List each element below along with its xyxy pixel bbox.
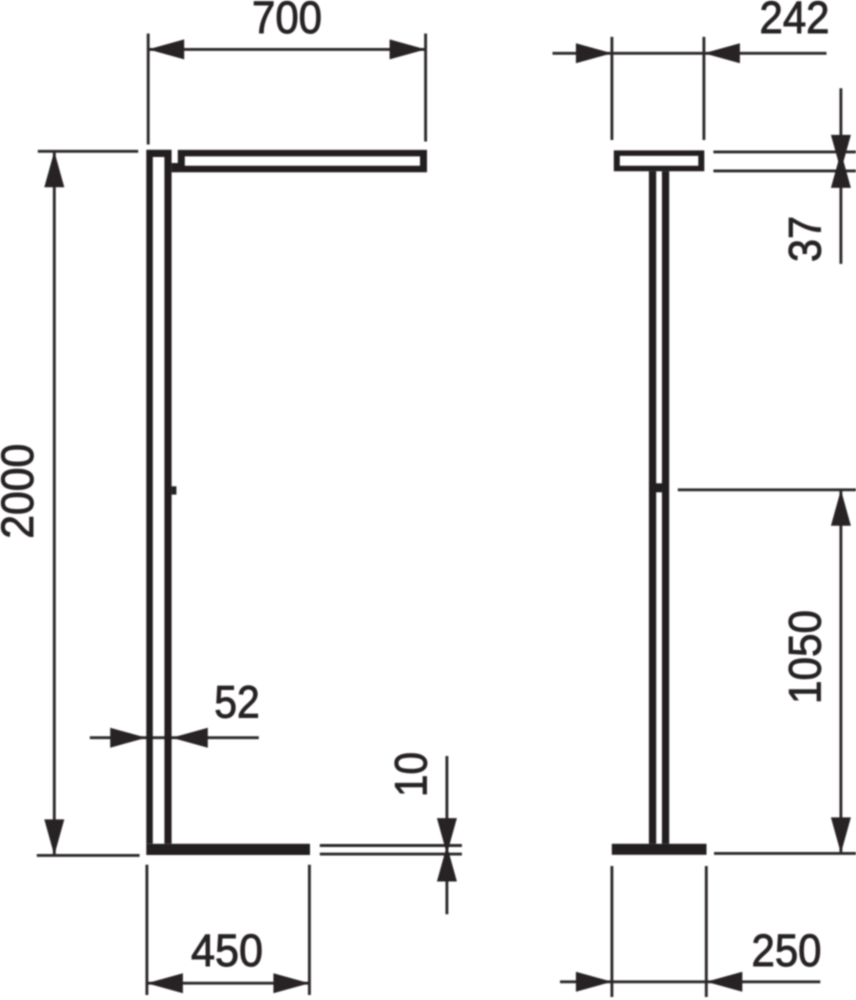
wire 1050 top extension (678, 488, 856, 491)
arrow 1050 bottom (831, 817, 851, 853)
arrow 37 bottom (831, 135, 851, 171)
wire 10 top extension (320, 844, 462, 847)
pole front view outline (146, 150, 171, 844)
arrow 242 left (576, 43, 612, 63)
pole side view right line (662, 171, 669, 844)
arrow 700 left (148, 39, 184, 59)
arrow 450 right (273, 973, 309, 993)
wire 450 right extension (308, 865, 311, 995)
arrow 450 left (147, 973, 183, 993)
wire 250 right extension (705, 866, 708, 997)
wire 1050 dim line (839, 490, 842, 854)
arrow 10 bottom (437, 818, 457, 854)
lamp head side view (614, 150, 705, 171)
wire 242 dim line (553, 52, 827, 55)
arrow 1050 top (831, 490, 851, 526)
wire 2000 dim line (53, 151, 56, 855)
arrow 52 right (172, 728, 208, 748)
svg-text:37: 37 (780, 216, 831, 262)
wire 450 left extension (145, 865, 148, 995)
wire 52 dim line (90, 736, 259, 739)
svg-text:10: 10 (386, 752, 437, 797)
switch mark side view (655, 483, 663, 492)
wire 250 left extension (610, 866, 613, 997)
wire 700 dim line (148, 48, 425, 51)
head-pole connector front view (172, 163, 178, 172)
base side view (612, 844, 707, 855)
svg-text:242: 242 (760, 0, 830, 43)
svg-text:2000: 2000 (0, 444, 43, 539)
wire 10 bottom extension (320, 853, 462, 856)
wire 450 dim line (147, 982, 310, 985)
wire 242 left extension (610, 37, 613, 140)
wire 700 left extension (147, 34, 150, 145)
wire 2000 top extension (38, 150, 138, 153)
wire 2000 bottom extension (37, 854, 140, 857)
svg-text:700: 700 (252, 0, 322, 43)
arrow 2000 top (44, 151, 64, 187)
arrow 52 left (110, 728, 146, 748)
svg-text:250: 250 (752, 925, 822, 976)
wire 1050 bottom extension (714, 852, 856, 855)
wire 250 dim line (560, 980, 820, 983)
wire 700 right extension (424, 34, 427, 142)
switch nub front view (172, 486, 177, 494)
wire 37 bottom extension (713, 169, 856, 172)
arrow 242 right (704, 43, 740, 63)
arrow 250 right (706, 972, 742, 992)
svg-text:1050: 1050 (780, 610, 831, 704)
wire 37 top extension (713, 150, 856, 153)
arrow 700 right (390, 39, 426, 59)
arrow 2000 bottom (44, 819, 64, 855)
wire 242 right extension (702, 37, 705, 140)
lamp head front view (178, 150, 427, 172)
pole side view left line (649, 171, 656, 844)
arrow 37 top (831, 152, 851, 188)
wire 10 dim line (445, 756, 448, 914)
svg-text:52: 52 (214, 677, 260, 728)
arrow 10 top (437, 846, 457, 882)
arrow 250 left (576, 972, 612, 992)
wire 37 dim line (839, 88, 842, 264)
base front view (146, 844, 310, 855)
svg-text:450: 450 (191, 925, 263, 976)
